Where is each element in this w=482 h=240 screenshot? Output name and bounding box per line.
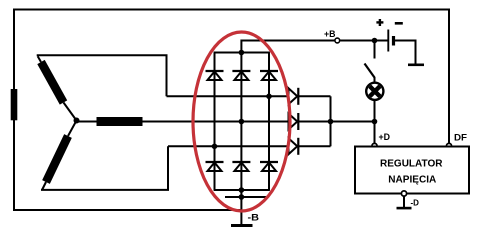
battery G1 minus plate: [392, 36, 395, 46]
exciter diode T2: [289, 113, 299, 130]
diode D2+ (top, leg 2): [232, 71, 250, 80]
bridge leg 3: [268, 53, 270, 191]
wire: upper winding stub to feeder: [38, 56, 41, 62]
node: phase2 / leg2: [239, 119, 245, 125]
wire: phase 1 feeder top run: [38, 55, 167, 96]
wire: lamp to +D junction: [374, 100, 376, 122]
regulator box U1: [355, 147, 469, 194]
bridge leg 1: [214, 53, 216, 191]
stator winding L2 (horizontal bar): [97, 117, 143, 126]
diode D3+ (top, leg 3): [260, 71, 278, 80]
stator winding L3 (lower diagonal bar): [46, 136, 68, 182]
bridge lower tie rail: [225, 196, 266, 198]
ground (-D): [397, 207, 412, 210]
bridge top rail: [214, 52, 270, 54]
terminal +B (open circle): [335, 38, 340, 43]
wire: blade to lamp: [374, 77, 376, 84]
terminal +D (open circle): [372, 143, 377, 148]
diode D1- (bottom, leg 1): [206, 162, 224, 171]
svg-text:+B: +B: [324, 29, 336, 39]
diode D1+ (top, leg 1): [206, 71, 224, 80]
node: phase1 / leg3: [266, 94, 272, 100]
wire: +B rail from bridge: [241, 41, 334, 53]
wire: junction down to +D terminal: [374, 122, 376, 144]
rotor field winding bar on left edge: [11, 89, 18, 120]
stator winding L1 (upper diagonal bar): [41, 62, 64, 103]
wire: -D to ground: [403, 196, 405, 207]
terminal bar -B: [231, 224, 253, 227]
bridge leg 2: [240, 53, 242, 191]
wire: trio to +D junction: [331, 121, 375, 123]
switch S1 (blade): [365, 64, 375, 78]
node: leg2 / bottom rail: [239, 187, 245, 193]
node: trio output: [328, 119, 334, 125]
svg-text:NAPIĘCIA: NAPIĘCIA: [388, 174, 436, 186]
wire: phase 1 line into bridge: [167, 95, 289, 97]
label battery -: [395, 22, 403, 25]
diode D2- (bottom, leg 2): [232, 162, 250, 171]
bridge bottom rail: [214, 189, 270, 191]
svg-text:DF: DF: [454, 132, 468, 142]
svg-text:REGULATOR: REGULATOR: [380, 157, 443, 169]
battery G1 plus plate: [387, 30, 389, 52]
wire: node to upper winding: [64, 103, 77, 121]
terminal DF (open circle): [446, 143, 451, 148]
red highlight ellipse around rectifier: [193, 32, 290, 211]
svg-text:+D: +D: [379, 132, 391, 142]
wire: +B to battery: [340, 40, 388, 42]
node: leg2 / +B branch: [239, 50, 245, 56]
wire: trio collection line: [330, 96, 332, 146]
label battery +: [376, 19, 383, 26]
node: -B stub junction: [239, 194, 245, 200]
terminal -D (open circle): [401, 191, 406, 196]
node: phase3 / leg1: [212, 144, 218, 150]
svg-text:-D: -D: [411, 198, 420, 207]
wire: node to middle winding: [77, 121, 97, 123]
wire: phase 3 feeder bottom run: [41, 146, 168, 190]
indicator lamp H1: [366, 83, 383, 100]
exciter diode T3: [289, 138, 299, 155]
wire: phase 3 line into bridge: [168, 145, 289, 147]
wire: lower winding stub: [42, 182, 46, 190]
wire: battery to ground: [394, 41, 416, 64]
wire: switch feed: [374, 41, 376, 59]
wire: -B stub: [240, 190, 242, 225]
stator centre node: [74, 118, 80, 124]
wire: trio outputs: [298, 95, 330, 97]
wire: node to lower winding: [68, 121, 77, 137]
wire: phase 2 line into bridge: [143, 121, 289, 123]
exciter diode T1: [289, 88, 299, 105]
diode D3- (bottom, leg 3): [260, 162, 278, 171]
ground (battery): [408, 64, 424, 67]
wire frame: field circuit loop (top + left + bottom): [14, 10, 449, 211]
svg-text:-B: -B: [248, 213, 260, 223]
node: battery / switch junction: [372, 38, 378, 44]
node: lamp / trio / +D junction: [372, 119, 378, 125]
